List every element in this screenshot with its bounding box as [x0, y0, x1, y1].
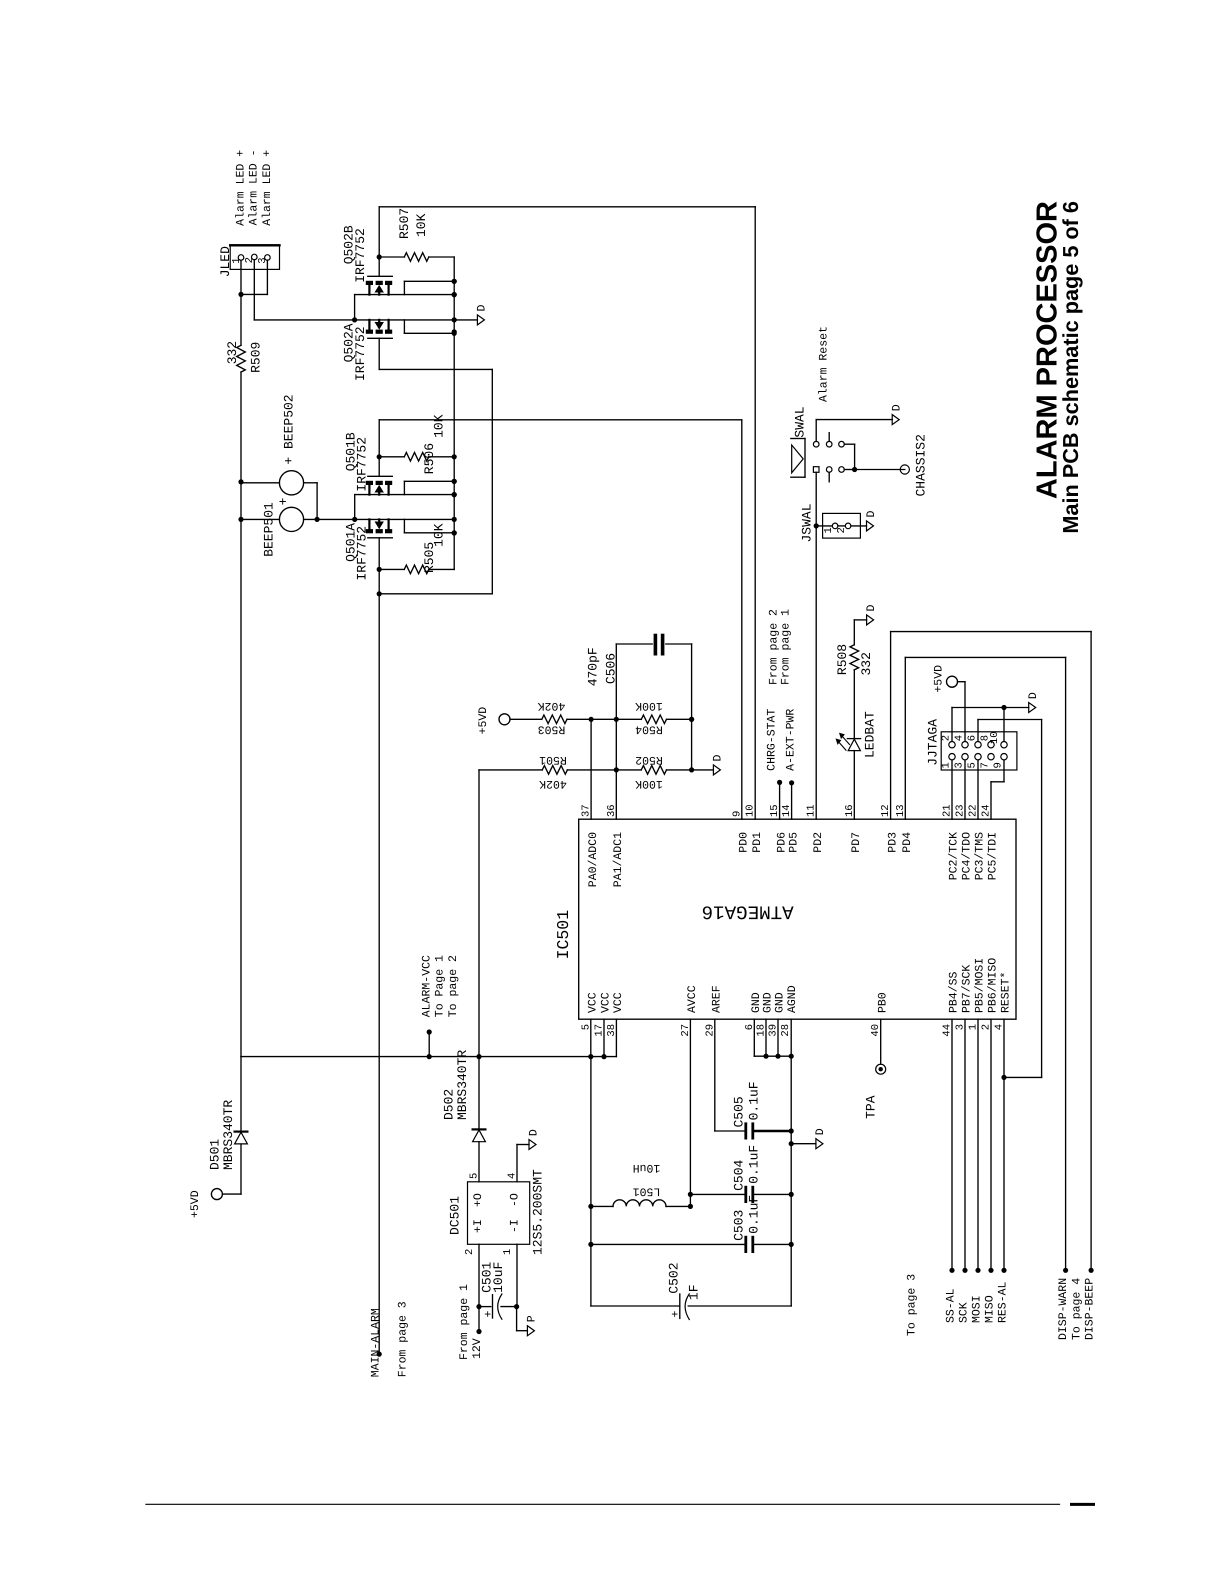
- net SS-AL / SCK / MOSI / MISO wires to page 3: [951, 1019, 953, 1270]
- supply arrow D: [477, 315, 484, 325]
- net ALARM-VCC stub to pages 1/2: [428, 1032, 430, 1057]
- connector JSWAL: [823, 513, 861, 538]
- svg-text:D: D: [476, 305, 489, 312]
- svg-text:RES-AL: RES-AL: [997, 1281, 1010, 1323]
- svg-text:C504: C504: [731, 1159, 746, 1190]
- svg-text:VCC: VCC: [600, 992, 613, 1013]
- supply +5VD at JTAG: [947, 676, 958, 687]
- svg-text:14: 14: [781, 804, 793, 817]
- svg-text:28: 28: [780, 1024, 792, 1037]
- svg-text:C505: C505: [731, 1096, 746, 1127]
- svg-text:D: D: [865, 605, 878, 612]
- svg-text:7: 7: [979, 762, 991, 768]
- svg-text:10K: 10K: [432, 523, 447, 547]
- svg-text:R504: R504: [635, 722, 663, 735]
- svg-text:DISP-BEEP: DISP-BEEP: [1084, 1278, 1097, 1340]
- svg-text:1F: 1F: [686, 1284, 701, 1300]
- svg-text:PB7/SCK: PB7/SCK: [961, 965, 974, 1013]
- svg-text:R502: R502: [635, 753, 663, 766]
- supply arrow D: [1029, 703, 1036, 713]
- border footer line: [146, 1503, 1060, 1505]
- wire VCC vertical to C503/C502: [590, 1057, 592, 1306]
- svg-text:JLED: JLED: [218, 246, 233, 277]
- wire SWAL pole to JSWAL and PD2 pin 11: [815, 472, 817, 819]
- svg-text:R501: R501: [539, 753, 567, 766]
- svg-text:+5VD: +5VD: [933, 665, 946, 693]
- svg-text:9: 9: [992, 762, 1004, 768]
- svg-text:R507: R507: [397, 208, 412, 239]
- svg-text:100K: 100K: [635, 777, 663, 790]
- wire JLED pin1/pin3 tie: [240, 260, 242, 294]
- supply arrow D at R502: [692, 769, 714, 771]
- svg-text:C503: C503: [731, 1210, 746, 1241]
- svg-text:2: 2: [464, 1249, 476, 1255]
- svg-text:10K: 10K: [432, 414, 447, 438]
- resistor R508 332: [850, 645, 859, 670]
- svg-text:AREF: AREF: [710, 985, 723, 1013]
- svg-text:Main PCB schematic page 5 of 6: Main PCB schematic page 5 of 6: [1058, 201, 1083, 534]
- svg-text:10: 10: [745, 804, 757, 817]
- resistor R503 402K: [510, 718, 542, 720]
- wire VCC pins to rail: [590, 1019, 592, 1056]
- wire left rail (beeper plus) down to VCC rail: [240, 372, 242, 1057]
- net 12V from page 1: [478, 1307, 480, 1332]
- capacitor C503 0.1uF: [591, 1243, 745, 1245]
- svg-text:Alarm Reset: Alarm Reset: [818, 326, 831, 402]
- wire ALARM-VCC rail: [241, 1056, 616, 1058]
- wire SWAL NC contact to chassis: [844, 443, 854, 445]
- svg-text:D: D: [527, 1129, 540, 1136]
- resistor R504 100K: [641, 715, 666, 724]
- svg-text:To Page 1: To Page 1: [434, 955, 447, 1017]
- wire JTAG pin9 jog to PC5/TDI pin24: [1003, 760, 1005, 782]
- svg-text:PD4: PD4: [901, 832, 914, 853]
- svg-text:P: P: [526, 1315, 539, 1322]
- wire gate link A-side to MAIN-ALARM column: [377, 591, 382, 596]
- svg-text:-I: -I: [508, 1219, 521, 1233]
- svg-text:100K: 100K: [635, 699, 663, 712]
- svg-text:470pF: 470pF: [585, 647, 600, 686]
- svg-text:12S5.200SMT: 12S5.200SMT: [530, 1169, 545, 1255]
- transistor Q502A IRF7752: [366, 330, 373, 334]
- svg-text:PB5/MOSI: PB5/MOSI: [974, 958, 987, 1013]
- resistor R502 100K: [641, 766, 666, 775]
- svg-text:37: 37: [581, 804, 593, 817]
- svg-text:12: 12: [880, 804, 892, 817]
- wire GND vertical: [790, 1056, 792, 1306]
- connector JJTAGA: [941, 732, 1017, 770]
- wire JLED pin2 to drain bus W1: [253, 260, 255, 320]
- svg-text:21: 21: [942, 804, 954, 817]
- net DISP-BEEP wire from PD4 pin13: [904, 657, 906, 819]
- transistor Q501B IRF7752 with pull-up R506: [379, 419, 742, 421]
- supply arrow D: [867, 521, 874, 531]
- svg-text:D: D: [814, 1128, 827, 1135]
- svg-text:To page 2: To page 2: [447, 955, 460, 1017]
- net DISP-WARN wire from PD3 pin12: [890, 632, 892, 820]
- svg-text:SS-AL: SS-AL: [945, 1288, 958, 1323]
- svg-text:From page 1: From page 1: [780, 609, 793, 685]
- svg-text:+O: +O: [472, 1193, 485, 1207]
- svg-text:SWAL: SWAL: [793, 406, 808, 437]
- diode D501 MBRS340TR: [240, 1057, 242, 1132]
- svg-text:MAIN-ALARM: MAIN-ALARM: [370, 1308, 383, 1377]
- test point TPA at PB0 pin40: [880, 1019, 882, 1064]
- svg-text:1: 1: [940, 762, 952, 768]
- svg-text:GND: GND: [774, 992, 787, 1013]
- svg-text:15: 15: [769, 804, 781, 817]
- svg-text:+5VD: +5VD: [189, 1190, 202, 1218]
- supply arrow P: [516, 1307, 518, 1331]
- supply arrow D: [892, 415, 899, 425]
- wire AREF pin29 to C505: [714, 1019, 716, 1131]
- connector JLED: [230, 245, 279, 270]
- svg-text:PD0: PD0: [737, 832, 750, 853]
- transistor Q501A IRF7752 with R505: [366, 529, 373, 533]
- svg-text:6: 6: [966, 735, 978, 741]
- svg-text:PC2/TCK: PC2/TCK: [948, 832, 961, 880]
- svg-text:MISO: MISO: [984, 1295, 997, 1323]
- svg-text:10uF: 10uF: [491, 1262, 506, 1293]
- svg-text:D: D: [890, 404, 903, 411]
- svg-text:PB6/MISO: PB6/MISO: [987, 958, 1000, 1013]
- svg-text:402K: 402K: [539, 777, 567, 790]
- supply symbol +5VD at D501: [211, 1189, 222, 1200]
- diode D502 MBRS340TR: [473, 1128, 486, 1130]
- svg-text:LEDBAT: LEDBAT: [863, 711, 878, 758]
- svg-text:16: 16: [844, 804, 856, 817]
- svg-text:11: 11: [806, 804, 818, 817]
- svg-text:TPA: TPA: [864, 1095, 879, 1119]
- svg-text:PA0/ADC0: PA0/ADC0: [587, 832, 600, 887]
- svg-text:13: 13: [895, 804, 907, 817]
- svg-text:+5VD: +5VD: [477, 707, 490, 735]
- wire DC501 pin1 to C501: [516, 1244, 518, 1306]
- wire DC501 pin4 to D arrow: [516, 1145, 518, 1182]
- svg-text:332: 332: [859, 652, 874, 675]
- wire Q502A gate link: [379, 368, 492, 370]
- capacitor C506 470pF: [615, 644, 617, 719]
- svg-text:402K: 402K: [538, 699, 566, 712]
- wire JTAG pins 1/3/5 to PC pins 21/23/22: [951, 760, 953, 819]
- svg-text:PD1: PD1: [751, 832, 764, 853]
- svg-text:From page 1: From page 1: [458, 1284, 471, 1360]
- svg-text:From page 2: From page 2: [767, 609, 780, 685]
- wire PD0 pin9 to Q501B gate rail: [741, 420, 743, 819]
- wire GND pins to mini rail: [753, 1019, 755, 1056]
- resistor R509 332: [240, 294, 242, 345]
- svg-text:5: 5: [469, 1173, 481, 1179]
- svg-text:1: 1: [823, 527, 835, 533]
- svg-text:R508: R508: [835, 644, 850, 675]
- svg-text:R509: R509: [249, 342, 264, 373]
- svg-text:PD3: PD3: [886, 832, 899, 853]
- resistor R501 402K: [479, 769, 542, 771]
- wire AVCC pin27 down: [689, 1019, 691, 1206]
- svg-text:IRF7752: IRF7752: [353, 228, 368, 283]
- svg-text:IC501: IC501: [554, 910, 573, 960]
- svg-text:MBRS340TR: MBRS340TR: [455, 1050, 470, 1120]
- svg-text:1: 1: [502, 1249, 514, 1255]
- svg-text:C506: C506: [604, 653, 619, 684]
- svg-text:To page 4: To page 4: [1071, 1278, 1084, 1340]
- svg-text:+: +: [483, 1311, 496, 1318]
- wire W2 beeper return to MOSFET bus: [304, 518, 455, 520]
- svg-text:PA1/ADC1: PA1/ADC1: [612, 832, 625, 887]
- buzzer BEEP502: [279, 471, 303, 495]
- svg-text:PC5/TDI: PC5/TDI: [987, 832, 1000, 880]
- svg-text:R506: R506: [422, 443, 437, 474]
- wire PA0 pin37 stub: [590, 719, 592, 819]
- svg-text:PD5: PD5: [787, 832, 800, 853]
- svg-text:PC3/TMS: PC3/TMS: [974, 832, 987, 880]
- supply arrow D ground tap: [791, 1143, 816, 1145]
- svg-text:RESET*: RESET*: [1000, 972, 1013, 1013]
- supply arrow D at R508: [867, 615, 874, 625]
- svg-text:4: 4: [953, 735, 965, 741]
- svg-text:CHASSIS2: CHASSIS2: [914, 434, 929, 496]
- net RES-AL wire (RESET*) to page 3: [1003, 1019, 1005, 1270]
- wire R501 feed from ALARM-VCC rail through D502: [478, 770, 480, 1130]
- svg-text:PD7: PD7: [850, 832, 863, 853]
- svg-text:10: 10: [989, 731, 1001, 744]
- svg-text:10uH: 10uH: [633, 1161, 661, 1174]
- DC/DC converter DC501 12S5.200SMT: [468, 1182, 530, 1245]
- switch SWAL (alarm reset): [792, 445, 804, 473]
- svg-text:C502: C502: [666, 1262, 681, 1293]
- svg-text:23: 23: [955, 804, 967, 817]
- capacitor C502 1F: [591, 1305, 680, 1307]
- svg-text:VCC: VCC: [612, 992, 625, 1013]
- supply symbol +5VD (analog divider): [499, 714, 510, 725]
- net CHRG-STAT from page 2 (pin15): [779, 782, 781, 819]
- net A-EXT-PWR from page 1 (pin14): [791, 783, 793, 819]
- svg-text:D: D: [1027, 692, 1040, 699]
- svg-text:0.1uF: 0.1uF: [747, 1195, 762, 1234]
- LED LEDBAT: [847, 738, 860, 740]
- svg-text:2: 2: [836, 527, 848, 533]
- wire PD1 pin10 to Q502B gate rail: [754, 207, 756, 819]
- svg-text:3: 3: [953, 762, 965, 768]
- svg-text:To page 3: To page 3: [905, 1274, 918, 1336]
- svg-text:+I: +I: [472, 1219, 485, 1233]
- svg-text:BEEP501: BEEP501: [262, 502, 277, 557]
- svg-text:24: 24: [981, 804, 993, 817]
- svg-text:12V: 12V: [471, 1338, 484, 1359]
- svg-text:AVCC: AVCC: [686, 985, 699, 1013]
- wire PA1 pin36 stub: [615, 719, 617, 819]
- svg-text:IRF7752: IRF7752: [354, 526, 369, 581]
- svg-text:Alarm LED +: Alarm LED +: [261, 150, 274, 226]
- svg-text:+: +: [276, 497, 291, 505]
- svg-text:PB4/SS: PB4/SS: [948, 971, 961, 1013]
- svg-text:IRF7752: IRF7752: [353, 326, 368, 381]
- svg-text:PD2: PD2: [812, 832, 825, 853]
- svg-text:ALARM-VCC: ALARM-VCC: [420, 955, 433, 1017]
- svg-text:VCC: VCC: [586, 992, 599, 1013]
- buzzer BEEP501: [279, 507, 303, 531]
- capacitor C504 0.1uF: [690, 1193, 744, 1195]
- svg-text:+: +: [670, 1311, 683, 1318]
- svg-text:D: D: [865, 511, 878, 518]
- svg-text:CHRG-STAT: CHRG-STAT: [765, 709, 778, 771]
- wire SWAL common to D arrow: [815, 420, 817, 442]
- svg-text:DISP-WARN: DISP-WARN: [1057, 1278, 1070, 1340]
- svg-text:AGND: AGND: [786, 985, 799, 1013]
- svg-text:PB0: PB0: [876, 992, 889, 1013]
- svg-text:MOSI: MOSI: [971, 1295, 984, 1323]
- capacitor C505 0.1uF: [744, 1122, 747, 1139]
- svg-text:SCK: SCK: [958, 1302, 971, 1323]
- svg-text:+ BEEP502: + BEEP502: [282, 394, 297, 464]
- chassis ground CHASSIS2: [900, 465, 909, 474]
- svg-text:L501: L501: [633, 1184, 661, 1197]
- svg-text:0.1uF: 0.1uF: [747, 1081, 762, 1120]
- wire JTAG pin6 to RESET net: [977, 720, 979, 742]
- wire DC501 pin2 to C501: [478, 1244, 480, 1306]
- wire W1 LED drain bus with D arrow: [254, 319, 477, 321]
- svg-text:JJTAGA: JJTAGA: [925, 719, 940, 766]
- svg-text:Alarm LED -: Alarm LED -: [247, 149, 260, 225]
- svg-text:332: 332: [225, 341, 240, 364]
- svg-text:MBRS340TR: MBRS340TR: [221, 1100, 236, 1170]
- svg-text:0.1uF: 0.1uF: [747, 1145, 762, 1184]
- svg-text:5: 5: [966, 762, 978, 768]
- svg-text:2: 2: [940, 735, 952, 741]
- svg-text:IRF7752: IRF7752: [354, 437, 369, 492]
- wire JTAG ground pins 2/10 to D arrow: [952, 707, 1029, 709]
- svg-text:From page 3: From page 3: [397, 1301, 410, 1377]
- wire LED to PD7 pin16: [853, 751, 855, 820]
- svg-text:PC4/TDO: PC4/TDO: [961, 832, 974, 880]
- svg-text:A-EXT-PWR: A-EXT-PWR: [784, 709, 797, 771]
- net MAIN-ALARM wire from page 3: [378, 594, 380, 1354]
- inductor L501 10uH: [591, 1205, 613, 1207]
- capacitor C501 10uF electrolytic: [479, 1306, 491, 1308]
- wire MOSFET common bus: [453, 257, 455, 569]
- svg-text:R503: R503: [538, 722, 566, 735]
- svg-text:22: 22: [968, 804, 980, 817]
- svg-text:D: D: [712, 755, 725, 762]
- svg-text:-O: -O: [508, 1193, 521, 1207]
- svg-text:10K: 10K: [414, 213, 429, 237]
- svg-text:9: 9: [731, 811, 743, 817]
- transistor Q502B IRF7752 with pull-up R507: [379, 206, 755, 208]
- svg-text:JSWAL: JSWAL: [799, 503, 814, 542]
- svg-text:DC501: DC501: [448, 1196, 463, 1235]
- svg-text:36: 36: [606, 804, 618, 817]
- IC U IC501 ATMEGA16 body: [579, 819, 1016, 1019]
- svg-text:ATMEGA16: ATMEGA16: [702, 901, 794, 923]
- svg-text:Alarm LED +: Alarm LED +: [234, 150, 247, 226]
